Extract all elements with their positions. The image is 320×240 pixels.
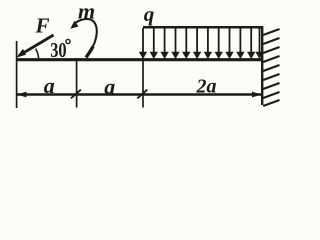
svg-text:a: a (44, 73, 55, 98)
svg-text:q: q (144, 2, 155, 26)
svg-text:a: a (104, 74, 115, 99)
svg-text:2a: 2a (196, 75, 217, 97)
svg-text:m: m (78, 0, 95, 24)
svg-text:30: 30 (50, 39, 66, 62)
svg-text:F: F (35, 14, 50, 38)
